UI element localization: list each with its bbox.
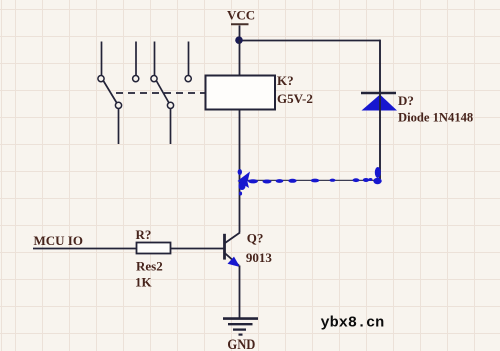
SW2 NC contact circle [185,76,191,82]
SW1 lower wire [118,109,120,144]
svg-text:Res2: Res2 [136,258,163,273]
svg-text:G5V-2: G5V-2 [277,91,313,106]
diode D1 cathode bar [361,92,396,95]
transistor Q1 collector slant [225,233,240,244]
svg-text:K?: K? [277,73,294,88]
resistor R? body [137,243,171,254]
transistor Q1 base bar [223,234,226,260]
wire MCU IO to resistor [33,248,137,250]
svg-text:ybx8.cn: ybx8.cn [321,313,385,331]
svg-text:Q?: Q? [247,231,264,246]
SW2 lower wire [170,109,172,144]
svg-text:GND: GND [227,337,255,351]
SW2 NC contact wire [188,42,190,76]
relay contact switch SW2 pole wire [154,42,156,76]
wire right vertical to diode cathode [379,40,381,92]
SW1 throw arm [104,81,117,103]
ground symbol [223,319,258,335]
SW1 lower terminal circle [115,102,121,108]
SW2 pole terminal circle [151,76,157,82]
node junction at VCC [235,36,243,44]
diode D1 anode triangle [362,95,398,111]
SW1 NC contact wire [135,42,137,76]
svg-text:R?: R? [136,227,152,242]
transistor Q1 emitter arrow [228,257,241,267]
transistor Q1 emitter slant [225,253,239,265]
svg-text:MCU IO: MCU IO [34,233,83,248]
blue blob right end [375,167,381,178]
relay K? coil box [206,76,276,110]
SW2 throw arm [157,81,170,103]
blue arrow left end [238,172,251,189]
relay contact switch SW1 pole wire [101,42,103,76]
wire diode anode down [379,94,381,179]
wire relay coil to transistor collector [239,110,241,233]
svg-text:1K: 1K [135,274,153,289]
wire VCC junction to right [239,40,380,42]
SW2 lower terminal circle [167,102,173,108]
svg-text:D?: D? [398,93,414,108]
svg-text:9013: 9013 [246,250,273,265]
wire emitter to ground [239,266,241,318]
power symbol VCC [227,8,255,38]
base wire from resistor [171,248,224,250]
mechanical linkage dashed line to coil [116,92,205,94]
blue annotation dotted line [238,167,382,196]
SW1 NC contact circle [133,76,139,82]
svg-text:Diode 1N4148: Diode 1N4148 [398,110,473,124]
wire junction down to relay coil [239,40,241,76]
SW1 pole terminal circle [98,76,104,82]
svg-text:VCC: VCC [227,8,255,23]
